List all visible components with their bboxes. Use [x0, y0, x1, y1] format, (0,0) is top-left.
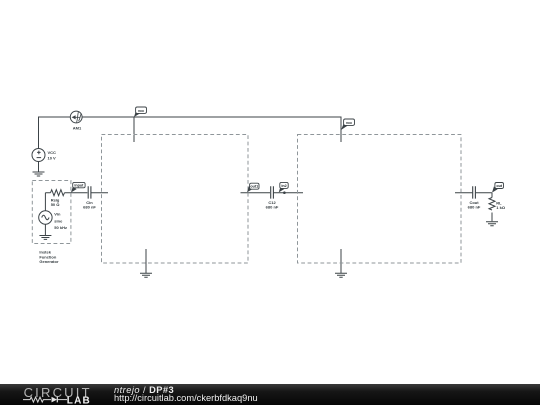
svg-text:out: out: [496, 184, 503, 188]
svg-text:sine: sine: [54, 218, 63, 223]
svg-text:1 kΩ: 1 kΩ: [496, 205, 506, 210]
svg-text:vcc: vcc: [138, 109, 144, 113]
svg-text:LAB: LAB: [67, 396, 91, 406]
svg-text:AM1: AM1: [73, 125, 82, 130]
svg-text:Vin: Vin: [54, 212, 61, 217]
svg-text:10 V: 10 V: [48, 156, 57, 161]
svg-text:input: input: [74, 184, 84, 188]
svg-text:50 kHz: 50 kHz: [54, 225, 67, 230]
svg-text:VCC: VCC: [48, 150, 57, 155]
svg-text:680 nF: 680 nF: [266, 205, 279, 210]
svg-text:vcc: vcc: [346, 121, 352, 125]
svg-text:out1: out1: [250, 185, 258, 189]
svg-text:680 nF: 680 nF: [468, 205, 481, 210]
svg-text:Generator: Generator: [39, 259, 59, 264]
svg-text:50 Ω: 50 Ω: [51, 202, 61, 207]
svg-text:680 nF: 680 nF: [83, 205, 96, 210]
svg-text:in2: in2: [281, 184, 286, 188]
